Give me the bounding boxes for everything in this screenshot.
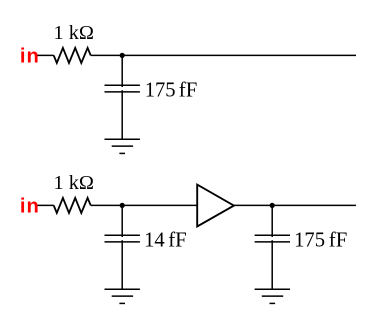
svg-text:fF: fF [179,78,198,101]
svg-text:1 kΩ: 1 kΩ [54,172,94,194]
svg-text:1 kΩ: 1 kΩ [54,22,94,44]
svg-text:175: 175 [294,230,325,252]
svg-text:fF: fF [168,229,187,252]
svg-text:in: in [20,196,39,218]
svg-text:14: 14 [144,230,165,252]
svg-text:fF: fF [329,229,348,252]
svg-text:175: 175 [145,79,176,101]
svg-text:in: in [20,46,39,68]
